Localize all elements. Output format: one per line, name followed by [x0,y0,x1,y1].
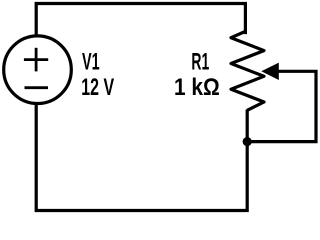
svg-text:R1: R1 [191,49,209,76]
svg-text:V1: V1 [82,49,100,76]
V1 minus sign [25,86,49,89]
voltage source V1 [4,36,72,104]
wire: junction down, bottom across, up to V1 bottom [36,105,247,211]
wire: R1 bottom lead to junction [246,110,249,142]
svg-text:1 kΩ: 1 kΩ [174,74,220,101]
V1 plus sign [24,48,48,72]
wiper arrowhead [261,63,279,80]
junction dot [243,137,252,146]
wire: wiper to right vertical, down, and back to junction [251,71,316,141]
svg-text:12 V: 12 V [81,74,114,101]
resistor R1 zigzag body [231,31,264,110]
wire: V1 top up, across top, down to R1 top lead [36,4,245,35]
